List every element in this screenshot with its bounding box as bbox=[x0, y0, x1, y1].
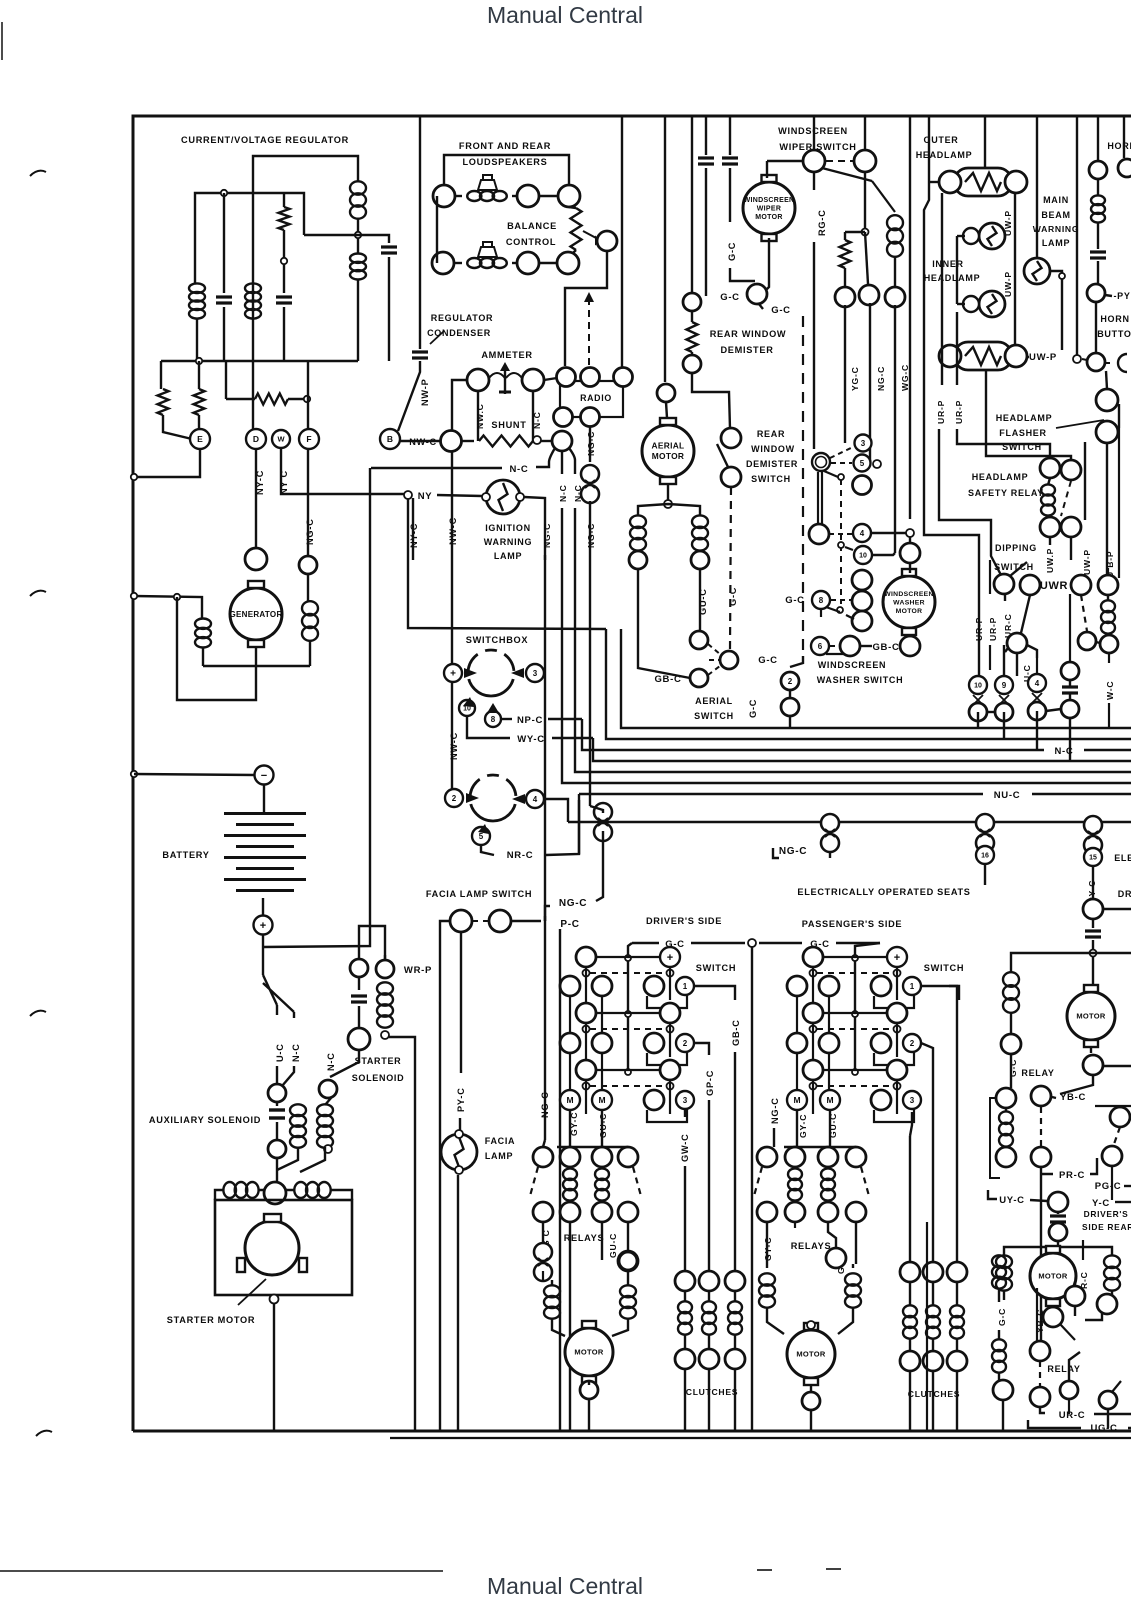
svg-text:GP-C: GP-C bbox=[705, 1070, 715, 1096]
wire bbox=[957, 235, 965, 237]
connector bbox=[489, 910, 511, 932]
wire bbox=[1052, 1246, 1054, 1247]
connector bbox=[846, 1202, 866, 1222]
wire UR-P 1 bbox=[939, 193, 1001, 575]
wire bbox=[177, 597, 256, 700]
connector bbox=[1100, 635, 1118, 653]
svg-text:NG-C: NG-C bbox=[305, 518, 315, 545]
wire bbox=[569, 207, 576, 256]
node bbox=[1073, 355, 1081, 363]
svg-text:BEAM: BEAM bbox=[1041, 210, 1070, 220]
coil bbox=[992, 1339, 1006, 1351]
svg-text:UW.P: UW.P bbox=[1045, 548, 1055, 573]
connector 10 bbox=[854, 546, 872, 564]
connector bbox=[245, 548, 267, 570]
wire bbox=[929, 181, 939, 183]
svg-text:WINDSCREEN: WINDSCREEN bbox=[818, 660, 887, 670]
dipping lever link bbox=[1021, 595, 1030, 633]
coil regulator series 1 bbox=[350, 181, 366, 194]
connector seat driver row 3 left top bbox=[576, 1060, 596, 1080]
wire shunt fan right bbox=[569, 448, 575, 474]
wire NW-C through bbox=[451, 682, 453, 789]
wire pass 3 out bbox=[910, 1112, 912, 1136]
connector bbox=[1005, 171, 1027, 193]
bracket right bbox=[647, 1052, 687, 1065]
wire speaker feed bbox=[444, 155, 569, 185]
node bbox=[533, 436, 541, 444]
wire 4 to washer bbox=[871, 532, 910, 534]
svg-text:ELE: ELE bbox=[1114, 853, 1131, 863]
wire bbox=[1084, 442, 1086, 585]
wire bbox=[1052, 1306, 1054, 1307]
node junction bbox=[304, 396, 310, 402]
pair riser right bbox=[601, 1053, 603, 1090]
dashes bbox=[829, 533, 852, 535]
wire bbox=[288, 398, 307, 400]
connector bbox=[852, 570, 872, 590]
wire NG drop bbox=[869, 303, 871, 464]
wire bbox=[926, 1222, 928, 1431]
connector bbox=[618, 1251, 638, 1271]
node bbox=[1059, 273, 1065, 279]
svg-text:NG-C: NG-C bbox=[770, 1097, 780, 1124]
wire bbox=[589, 427, 591, 462]
wire bbox=[730, 268, 755, 281]
wire bbox=[691, 116, 693, 293]
connector bbox=[441, 431, 462, 452]
svg-text:1: 1 bbox=[910, 982, 915, 991]
svg-text:2: 2 bbox=[452, 794, 457, 803]
svg-text:YG-C: YG-C bbox=[850, 366, 860, 391]
wire bbox=[590, 806, 603, 813]
bus seats bbox=[568, 821, 1131, 823]
svg-text:4: 4 bbox=[533, 795, 538, 804]
aerial hub connector bbox=[720, 651, 738, 669]
wire bbox=[810, 1386, 812, 1392]
inline connector pair bbox=[821, 814, 839, 832]
svg-text:D: D bbox=[253, 434, 259, 444]
svg-text:WY-C: WY-C bbox=[517, 734, 545, 745]
wire bbox=[1092, 940, 1094, 986]
dashed link bbox=[830, 645, 839, 647]
aerial lead dashed bbox=[588, 298, 590, 368]
svg-text:G-C: G-C bbox=[728, 587, 738, 606]
svg-text:G-C: G-C bbox=[1008, 1059, 1018, 1077]
pair riser left bbox=[569, 1053, 571, 1090]
svg-text:CONDENSER: CONDENSER bbox=[427, 328, 491, 338]
wire bbox=[989, 560, 991, 594]
wire bbox=[864, 116, 866, 150]
connector bbox=[835, 287, 855, 307]
wire bbox=[828, 1222, 836, 1248]
row feed link bbox=[596, 1012, 660, 1014]
wire bbox=[543, 1140, 545, 1147]
connector bbox=[1087, 353, 1105, 371]
wire bbox=[1049, 537, 1051, 545]
dashed bbox=[1081, 595, 1087, 631]
wire NY to lamp bbox=[437, 495, 482, 496]
bus rail 4 bbox=[593, 738, 1131, 761]
wire bbox=[569, 1200, 571, 1202]
pole right bbox=[896, 967, 898, 1000]
wire bbox=[196, 318, 198, 361]
connector bbox=[560, 1147, 580, 1167]
connector bbox=[871, 976, 891, 996]
connector bbox=[299, 556, 317, 574]
svg-text:HEADLAMP: HEADLAMP bbox=[996, 413, 1053, 423]
svg-text:2: 2 bbox=[683, 1039, 688, 1048]
inline connector X bbox=[999, 695, 1009, 705]
node bbox=[807, 1321, 815, 1329]
svg-text:HEADLAMP: HEADLAMP bbox=[916, 150, 973, 160]
wire pass 1 out bbox=[921, 986, 957, 1009]
wire G-C rail bbox=[632, 942, 659, 944]
wire bbox=[283, 230, 285, 293]
wire bbox=[283, 193, 285, 207]
terminal 10 bbox=[459, 700, 475, 716]
resistor lower mid bbox=[255, 394, 288, 405]
svg-text:GU-C: GU-C bbox=[608, 1233, 618, 1258]
wire bbox=[358, 977, 360, 990]
wire YG drop bbox=[844, 305, 846, 443]
wire 4 out bbox=[544, 799, 568, 822]
connector bbox=[644, 1033, 664, 1053]
svg-text:NU-C: NU-C bbox=[994, 790, 1021, 801]
clutch column bbox=[699, 1271, 719, 1291]
svg-text:FLASHER: FLASHER bbox=[999, 428, 1046, 438]
svg-text:RG-C: RG-C bbox=[817, 209, 827, 236]
bracket right bbox=[647, 1109, 687, 1122]
connector bbox=[818, 1147, 838, 1167]
wire wiper sw to junction bbox=[864, 172, 866, 232]
wire flasher drop bbox=[1106, 443, 1108, 583]
svg-text:1: 1 bbox=[683, 982, 688, 991]
wire bbox=[829, 851, 831, 858]
coil bbox=[1003, 972, 1019, 987]
label pointer bbox=[1056, 420, 1104, 428]
connector bbox=[871, 1033, 891, 1053]
wire 1 out bbox=[949, 986, 959, 1000]
capacitor regulator mid bbox=[276, 295, 292, 298]
pair riser right bbox=[601, 996, 603, 1033]
node bbox=[270, 1295, 279, 1304]
wire bbox=[223, 193, 225, 293]
svg-text:RADIO: RADIO bbox=[580, 393, 612, 403]
connector 10 bbox=[969, 676, 987, 694]
svg-text:GB-C: GB-C bbox=[731, 1019, 741, 1046]
wire bbox=[262, 898, 264, 917]
pair riser right bbox=[828, 1053, 830, 1090]
wire relay rail bbox=[784, 1146, 856, 1148]
wire NR-C riser bbox=[578, 794, 580, 854]
horn contact arc bbox=[1118, 354, 1127, 372]
wire feed coil branch bbox=[1011, 953, 1093, 973]
wire bbox=[986, 369, 1071, 461]
pole contacts bbox=[810, 1026, 817, 1033]
wire bbox=[1057, 1212, 1059, 1214]
wire balance to radio bbox=[565, 251, 607, 366]
connector bbox=[554, 408, 573, 427]
svg-text:DEMISTER: DEMISTER bbox=[746, 459, 798, 469]
dashed link bbox=[472, 920, 488, 922]
dashed bbox=[1039, 1361, 1041, 1388]
connector bbox=[644, 1090, 664, 1110]
wire bbox=[551, 1280, 553, 1286]
connector bbox=[1007, 633, 1027, 653]
wire shunt fan left bbox=[536, 448, 555, 467]
svg-text:UW-P: UW-P bbox=[1082, 549, 1092, 575]
coil relay 1 bbox=[788, 1168, 802, 1180]
connector pair bbox=[560, 1033, 580, 1053]
wire bbox=[861, 645, 872, 647]
wire G-C rail bbox=[759, 942, 802, 944]
wire bbox=[845, 547, 853, 550]
wire bbox=[1005, 1108, 1007, 1112]
connector bbox=[557, 252, 579, 274]
coil bbox=[992, 1255, 1006, 1267]
node bbox=[664, 500, 672, 508]
coil demister feed bbox=[887, 215, 903, 230]
svg-text:N-C: N-C bbox=[558, 484, 568, 502]
wire UR-P 2 bbox=[957, 312, 1050, 457]
svg-text:G-C: G-C bbox=[727, 242, 737, 261]
wire bbox=[1052, 1097, 1056, 1098]
pole contacts bbox=[583, 1083, 590, 1090]
svg-text:CONTROL: CONTROL bbox=[506, 237, 556, 247]
inner headlamp 1 bbox=[979, 223, 1005, 249]
diag bbox=[1060, 1324, 1075, 1340]
wire bbox=[1060, 1075, 1093, 1094]
label M bbox=[592, 1090, 612, 1110]
svg-text:NP-C: NP-C bbox=[517, 715, 543, 726]
connector seat passenger row 2 left top bbox=[803, 1003, 823, 1023]
outer headlamp bottom bbox=[954, 342, 1012, 370]
inline connector pair bbox=[534, 1243, 552, 1261]
svg-text:STARTER: STARTER bbox=[355, 1056, 402, 1066]
left margin scan marks bbox=[1, 22, 3, 60]
numbered connector 1 bbox=[676, 977, 694, 995]
svg-text:PASSENGER'S SIDE: PASSENGER'S SIDE bbox=[802, 919, 903, 929]
wire starter motor to frame bbox=[273, 1304, 275, 1431]
connector bbox=[533, 1202, 553, 1222]
wire bbox=[160, 361, 162, 389]
dashed lever bbox=[530, 1167, 538, 1196]
coil aerial 1 bbox=[630, 515, 646, 528]
connector 8 bbox=[812, 591, 830, 609]
label M bbox=[820, 1090, 840, 1110]
svg-text:NW.C: NW.C bbox=[475, 403, 485, 429]
dashed lever bbox=[633, 1167, 641, 1196]
wire NG-C drop bbox=[596, 831, 603, 901]
wire bbox=[894, 256, 896, 287]
wire bbox=[1106, 371, 1107, 389]
washer motor bbox=[883, 576, 935, 628]
wire bbox=[796, 1110, 798, 1147]
wire passenger outs bbox=[909, 1136, 911, 1262]
connector bbox=[618, 1147, 638, 1167]
connector 3 bbox=[855, 435, 872, 452]
dashed bbox=[840, 479, 842, 604]
wire bbox=[440, 921, 450, 1431]
wire 1 out bbox=[694, 986, 735, 1000]
connector bbox=[1043, 1307, 1063, 1327]
wire NG-C label link bbox=[544, 916, 546, 921]
connector bbox=[852, 591, 872, 611]
connector seat driver row 2 left top bbox=[576, 1003, 596, 1023]
pole right bbox=[669, 967, 671, 1000]
node bbox=[324, 1145, 332, 1153]
terminal plus bbox=[444, 664, 462, 682]
connector bbox=[747, 284, 767, 304]
svg-text:2: 2 bbox=[910, 1039, 915, 1048]
facia lamp bbox=[441, 1134, 477, 1170]
window motor bbox=[1067, 992, 1115, 1040]
wire N-C bbox=[371, 467, 502, 469]
svg-text:U-C: U-C bbox=[275, 1043, 285, 1062]
coil bbox=[996, 1255, 1012, 1268]
connector bbox=[691, 551, 709, 569]
connector bbox=[552, 431, 572, 451]
svg-text:4: 4 bbox=[1035, 679, 1040, 688]
wire border feeder bbox=[984, 116, 986, 168]
wire bbox=[766, 161, 768, 178]
node junction bbox=[355, 232, 361, 238]
svg-text:UR-C: UR-C bbox=[1059, 1410, 1086, 1421]
connector bbox=[757, 1202, 777, 1222]
svg-text:HEADLAMP: HEADLAMP bbox=[924, 273, 981, 283]
coil starter motor left bbox=[223, 1182, 236, 1198]
node junction bbox=[196, 358, 202, 364]
connector bbox=[517, 185, 539, 207]
connector bbox=[840, 636, 860, 656]
svg-text:LOUDSPEAKERS: LOUDSPEAKERS bbox=[463, 157, 548, 167]
wire 5 to NR-C bbox=[481, 845, 494, 855]
wire bbox=[462, 440, 474, 442]
wire relay out bbox=[569, 1222, 571, 1431]
coil starter solenoid bbox=[377, 982, 393, 994]
label pointer bbox=[430, 331, 444, 344]
connector 6 bbox=[811, 637, 829, 655]
svg-text:UR-P: UR-P bbox=[954, 400, 964, 424]
svg-text:CURRENT/VOLTAGE REGULATOR: CURRENT/VOLTAGE REGULATOR bbox=[181, 135, 349, 145]
bus rail 5 bbox=[575, 761, 1131, 772]
wire bbox=[1040, 1407, 1045, 1413]
wire bbox=[638, 612, 690, 678]
svg-text:GW-C: GW-C bbox=[680, 1133, 690, 1162]
svg-text:+: + bbox=[450, 669, 456, 680]
connector 4 bbox=[853, 524, 871, 542]
connector bbox=[1083, 899, 1103, 919]
node bbox=[906, 529, 914, 537]
wire solenoid Y split bbox=[263, 975, 294, 1012]
svg-text:REGULATOR: REGULATOR bbox=[431, 313, 493, 323]
wire bbox=[1069, 1352, 1080, 1381]
dashed crossbar bbox=[817, 1028, 891, 1030]
svg-text:16: 16 bbox=[981, 853, 989, 860]
svg-text:REAR WINDOW: REAR WINDOW bbox=[710, 329, 787, 339]
pair riser left bbox=[796, 1053, 798, 1090]
wire E to frame bbox=[134, 449, 200, 477]
capacitor bbox=[1062, 685, 1078, 688]
generator motor bbox=[230, 588, 282, 640]
svg-text:WASHER SWITCH: WASHER SWITCH bbox=[817, 675, 904, 685]
connector bbox=[1049, 1223, 1067, 1241]
connector bbox=[1001, 1034, 1021, 1054]
switchbox rotary 2 bbox=[470, 775, 516, 821]
wire bbox=[1041, 1158, 1097, 1174]
wire lamp to NG-C bbox=[524, 497, 545, 560]
connector bbox=[802, 1392, 820, 1410]
wire bbox=[1082, 1240, 1084, 1260]
connector bbox=[517, 252, 539, 274]
svg-text:SAFETY RELAY: SAFETY RELAY bbox=[968, 488, 1044, 498]
svg-text:-PY: -PY bbox=[1113, 291, 1130, 301]
connector bbox=[1040, 458, 1060, 478]
wire bbox=[1010, 1054, 1012, 1088]
coil bbox=[845, 1273, 861, 1285]
svg-text:M: M bbox=[598, 1095, 605, 1105]
connector bbox=[1089, 161, 1107, 179]
svg-text:NR-C: NR-C bbox=[507, 850, 534, 861]
coil relay bbox=[999, 1111, 1013, 1124]
svg-text:CLUTCHES: CLUTCHES bbox=[686, 1387, 738, 1397]
wire battery feed bbox=[262, 934, 264, 975]
coil bbox=[544, 1285, 560, 1297]
balance wiper arrow bbox=[583, 231, 598, 239]
wire bbox=[1097, 222, 1099, 249]
svg-text:M: M bbox=[826, 1095, 833, 1105]
svg-text:BUTTON: BUTTON bbox=[1097, 329, 1131, 339]
coil generator field right bbox=[302, 601, 318, 615]
svg-text:PR-C: PR-C bbox=[1059, 1170, 1085, 1181]
svg-text:SOLENOID: SOLENOID bbox=[352, 1073, 405, 1083]
connector bbox=[522, 369, 544, 391]
svg-text:MOTOR: MOTOR bbox=[1038, 1272, 1068, 1281]
node junction bbox=[221, 190, 227, 196]
node bbox=[1090, 950, 1097, 957]
connector bbox=[1098, 575, 1118, 595]
dashed rays bbox=[708, 644, 721, 655]
coil safety relay bbox=[1041, 484, 1055, 495]
wire bbox=[734, 1052, 736, 1271]
svg-text:NG-C: NG-C bbox=[540, 1091, 550, 1118]
coil relay 2 bbox=[595, 1168, 609, 1180]
connector bbox=[757, 1147, 777, 1167]
connector 11 bbox=[812, 453, 830, 471]
svg-text:UW-P: UW-P bbox=[1003, 271, 1013, 297]
wire bbox=[977, 712, 979, 728]
wire regulator cross link bbox=[304, 235, 389, 243]
switch lever bbox=[1112, 1381, 1121, 1392]
resistor demister feed bbox=[840, 240, 851, 268]
pole right bbox=[896, 1023, 898, 1057]
svg-text:SWITCH: SWITCH bbox=[994, 562, 1034, 572]
switch feed terminal bbox=[660, 947, 680, 967]
coil regulator shunt 2 bbox=[245, 283, 261, 293]
node NY bbox=[404, 491, 412, 499]
wire NW-C to switchbox bbox=[451, 452, 453, 664]
svg-text:F: F bbox=[306, 434, 311, 444]
connector bbox=[614, 368, 633, 387]
wire UW-P right rail bbox=[1014, 193, 1016, 345]
wire bbox=[1057, 1223, 1059, 1225]
rear motor bbox=[1030, 1253, 1076, 1299]
dashes bbox=[831, 599, 851, 601]
svg-text:3: 3 bbox=[683, 1096, 688, 1105]
dashed lever bbox=[754, 1167, 762, 1196]
label M bbox=[560, 1090, 580, 1110]
connector bbox=[887, 1003, 907, 1023]
